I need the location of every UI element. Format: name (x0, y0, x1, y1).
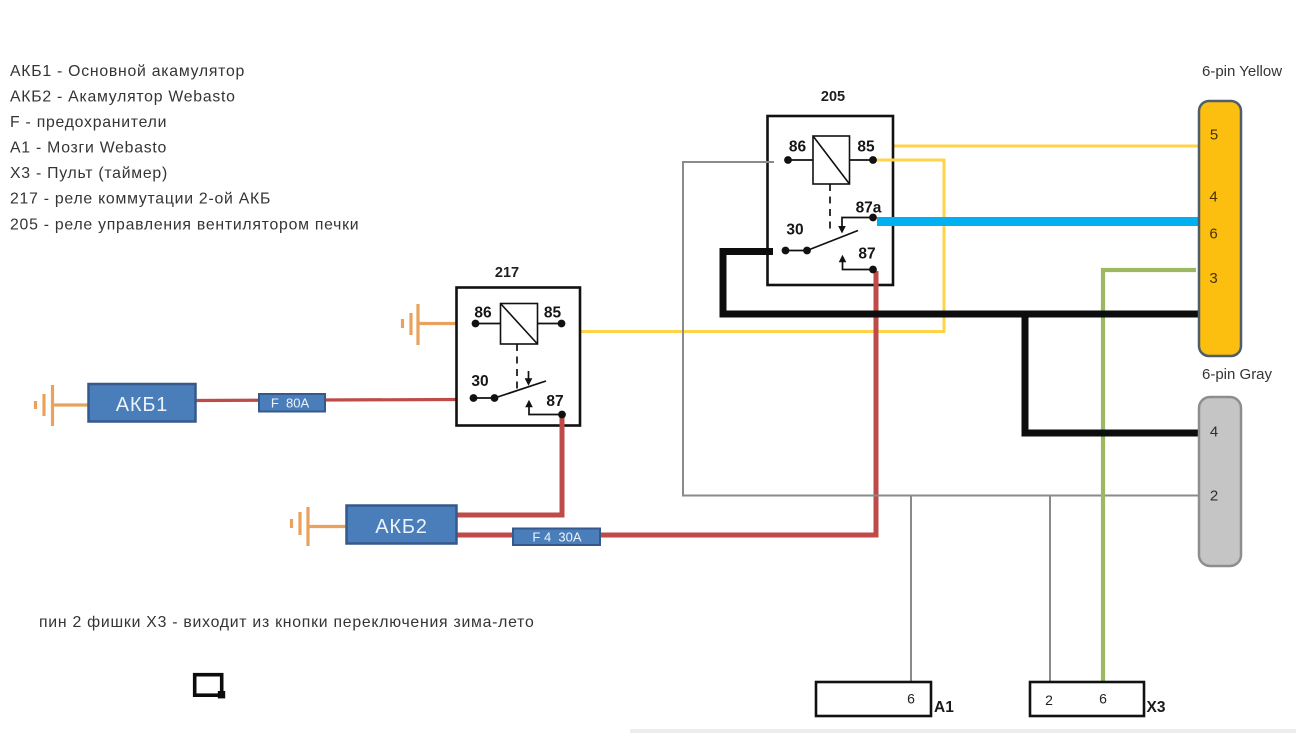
connector 6-pin Yellow (1199, 63, 1282, 356)
relay 217 (457, 265, 581, 427)
battery АКБ1 (89, 384, 196, 422)
svg-text:86: 86 (474, 305, 492, 322)
box A1 (816, 682, 954, 716)
ground G1 for АКБ1 (36, 385, 91, 426)
box X3 (1030, 682, 1166, 716)
svg-text:86: 86 (789, 139, 807, 156)
svg-text:217: 217 (495, 265, 519, 281)
svg-text:2: 2 (1210, 488, 1218, 505)
wire red relay217 pin87 to АКБ2 (457, 415, 562, 516)
svg-text:3: 3 (1209, 270, 1217, 287)
svg-text:4: 4 (1210, 424, 1218, 441)
connector 6-pin Gray (1199, 366, 1273, 566)
svg-text:6-pin Yellow: 6-pin Yellow (1202, 63, 1282, 80)
wire stub gray relay205 pin86 (766, 161, 774, 163)
svg-text:6: 6 (907, 691, 915, 707)
svg-text:АКБ1 - Основной акамулятор: АКБ1 - Основной акамулятор (10, 63, 245, 80)
relay 205 (766, 89, 896, 288)
battery АКБ2 (347, 506, 457, 544)
svg-text:F - предохранители: F - предохранители (10, 114, 167, 131)
fuse F4 30A (513, 529, 600, 546)
svg-text:АКБ2: АКБ2 (375, 516, 427, 538)
wire red АКБ2 via fuse F4 to relay205 pin87 (457, 271, 876, 535)
relay 205 coil (813, 136, 850, 184)
svg-text:87: 87 (858, 246, 875, 263)
relay 217 coil (501, 304, 538, 345)
svg-text:6: 6 (1099, 691, 1107, 707)
wire green X3 pin6 to yellow connector pin3 (1103, 270, 1196, 682)
svg-text:205 - реле управления вентилят: 205 - реле управления вентилятором печки (10, 217, 359, 234)
relay 217 down arrow (528, 371, 530, 379)
svg-text:87a: 87a (856, 200, 882, 217)
svg-text:F 80A: F 80A (271, 396, 310, 411)
ground G3 for relay217 pin86 (403, 304, 459, 345)
relay 217 dashed coil link (516, 344, 518, 390)
icon rectangle glyph (195, 675, 226, 699)
wire cyan relay205 pin87a to connector pin6 (879, 217, 1199, 226)
svg-text:4: 4 (1209, 189, 1217, 206)
wire gray from relay205 pin86 to gray connector pin2 (683, 162, 1199, 496)
svg-text:205: 205 (821, 89, 845, 105)
wire stub red relay205 pin87 (874, 271, 879, 288)
svg-text:X3: X3 (1147, 699, 1166, 716)
relay 217 switch arm (495, 381, 547, 398)
svg-text:87: 87 (546, 393, 563, 410)
wire yellow relay205 to connector pin5 (893, 145, 1199, 148)
svg-text:6-pin Gray: 6-pin Gray (1202, 366, 1273, 383)
svg-text:АКБ2 - Акамулятор Webasto: АКБ2 - Акамулятор Webasto (10, 89, 236, 106)
svg-text:30: 30 (786, 222, 803, 239)
svg-text:6: 6 (1209, 226, 1217, 243)
svg-text:АКБ1: АКБ1 (116, 394, 168, 416)
svg-text:2: 2 (1045, 692, 1053, 708)
svg-text:30: 30 (471, 373, 488, 390)
wire yellow relay205 pin85 to relay217 pin85 (580, 160, 944, 332)
wire black relay205 pin30 to yellow connector (723, 252, 1199, 315)
relay 205 switch arm (807, 231, 858, 251)
bottom edge band (630, 729, 1296, 733)
svg-text:217 - реле коммутации 2-ой АКБ: 217 - реле коммутации 2-ой АКБ (10, 191, 271, 208)
relay 205 dashed coil link (829, 184, 831, 233)
wire stub red relay217 pin87 (560, 415, 565, 428)
svg-text:F 4 30A: F 4 30A (532, 530, 581, 545)
wire red АКБ1 to relay217 pin30 (195, 400, 457, 401)
svg-text:А1 - Мозги Webasto: А1 - Мозги Webasto (10, 140, 167, 157)
wire stub black relay205 pin30 (766, 248, 773, 255)
svg-text:85: 85 (857, 139, 875, 156)
svg-text:85: 85 (544, 305, 562, 322)
svg-text:A1: A1 (934, 699, 954, 716)
wire stub yellow relay205 pin85 (874, 159, 895, 162)
svg-text:Х3 - Пульт (таймер): Х3 - Пульт (таймер) (10, 165, 168, 182)
wire gray branch to X3 pin2 (1049, 496, 1051, 683)
fuse F 80A (259, 394, 325, 412)
wire black branch to gray connector pin4 (1025, 314, 1199, 433)
wire gray branch to A1 pin6 (910, 496, 912, 683)
legend text block (10, 63, 359, 234)
ground G2 for АКБ2 (292, 507, 349, 546)
svg-text:5: 5 (1210, 127, 1218, 144)
svg-text:пин 2 фишки Х3 - виходит из кн: пин 2 фишки Х3 - виходит из кнопки перек… (39, 614, 535, 631)
wire stub cyan relay205 pin87a (877, 217, 896, 226)
